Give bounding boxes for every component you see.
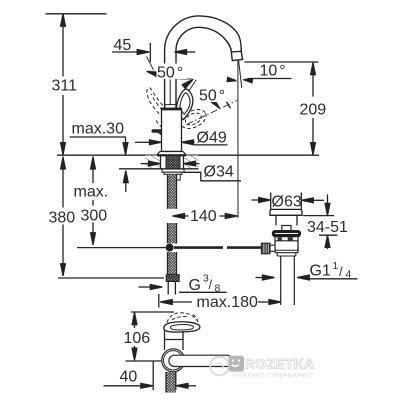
drain ring: [272, 231, 300, 237]
rod connector: [270, 245, 275, 251]
50deg no2 centerline dash-dot: [187, 101, 238, 125]
dim 311 tick top: [46, 13, 107, 15]
dim max.300 tick / rod thin line: [77, 247, 166, 249]
svg-text:/: /: [209, 277, 213, 292]
dim G1 1/4 underline: [306, 278, 358, 280]
50deg no1 ray right: [189, 80, 197, 92]
dim 45 line: [112, 51, 140, 53]
hose end tube: [167, 282, 169, 295]
side lever raised dashed: [167, 313, 197, 323]
drain tailpiece: [280, 256, 282, 305]
svg-text:ІНТЕРНЕТ-СУПЕРМАРКЕТ: ІНТЕРНЕТ-СУПЕРМАРКЕТ: [233, 374, 313, 380]
svg-text:/: /: [339, 264, 343, 279]
dim 209 tick top: [245, 61, 319, 63]
dim max.30 right stub: [125, 137, 127, 155]
flex hose upper: [168, 174, 177, 209]
lever tab left: [153, 129, 162, 133]
svg-text:G: G: [189, 277, 201, 294]
dim 380 line: [62, 157, 64, 208]
dim G1 1/4 arrows: [256, 277, 264, 279]
side spout tube: [169, 355, 232, 366]
side hose: [166, 372, 176, 393]
drain neck: [275, 215, 277, 225]
hose nut G3/8: [166, 275, 179, 282]
stream vertical ray: [237, 61, 239, 218]
nozzle: [231, 51, 242, 60]
svg-text:ROZETKA: ROZETKA: [245, 357, 314, 372]
counter bottom line: [119, 168, 199, 170]
svg-text:10°: 10°: [260, 63, 286, 80]
drain clamp: [274, 237, 276, 241]
svg-text:Ø63: Ø63: [272, 194, 302, 211]
svg-text:8: 8: [215, 283, 221, 295]
svg-text:4: 4: [346, 269, 352, 281]
dim 34-51 lower: [319, 234, 337, 236]
dim max.30 lower arrow at counter bottom: [123, 171, 128, 183]
svg-text:209: 209: [300, 102, 327, 119]
dim 10deg leader: [248, 78, 292, 80]
dim 40: [104, 385, 142, 387]
dim diam63 ticks: [270, 193, 272, 213]
50deg no2 arrowhead: [210, 98, 222, 110]
svg-text:Ø34: Ø34: [204, 164, 234, 181]
svg-text:50°: 50°: [157, 65, 183, 82]
drain boss: [282, 226, 291, 231]
washer: [164, 172, 182, 174]
dim G3/8 underline: [179, 291, 227, 293]
svg-text:max.30: max.30: [72, 121, 125, 138]
flex hose lower: [168, 252, 177, 275]
svg-text:max.: max.: [74, 184, 109, 201]
lever loop inner: [180, 93, 190, 114]
hole edge left: [160, 156, 162, 169]
dim 380 tick bottom: [58, 277, 164, 279]
hole edge right: [183, 156, 185, 169]
counter hatched band left: [145, 156, 161, 169]
cartridge collar: [165, 105, 176, 109]
side lever flat: [164, 322, 200, 332]
lever dashed ellipse up: [147, 88, 167, 118]
side tick left: [152, 361, 154, 390]
svg-text:G1: G1: [310, 263, 331, 280]
flex hose mid: [168, 223, 177, 244]
50deg no2 end tick: [227, 102, 231, 109]
drain cap: [270, 209, 302, 215]
pop-up rod guide: [176, 174, 180, 180]
side rings: [162, 349, 185, 372]
dim diam34: [141, 163, 150, 165]
stream 10deg slanted ray: [239, 61, 242, 88]
base escutcheon: [157, 152, 186, 155]
svg-text:1: 1: [333, 260, 339, 272]
lever loop outer: [176, 89, 193, 120]
dim 106 line: [134, 313, 136, 328]
svg-text:311: 311: [52, 78, 78, 95]
dim 140: [173, 214, 185, 219]
dim 45 inner arrow: [175, 50, 187, 55]
side view: dim 106 tick top: [131, 311, 174, 313]
counter hatched band right: [185, 156, 199, 169]
svg-text:Ø49: Ø49: [197, 130, 227, 147]
spout outer: [165, 16, 242, 109]
dim max.300 line: [92, 157, 94, 183]
50deg no1 arc: [147, 72, 192, 80]
counter top line: [57, 154, 319, 156]
dim 106 tick bottom: [126, 360, 162, 362]
dim 209 line: [312, 63, 314, 97]
svg-text:50°: 50°: [199, 88, 225, 105]
white underlays for labels crossing lines: [157, 64, 229, 144]
svg-text:106: 106: [124, 330, 151, 347]
lever dashed ellipse fwd: [178, 106, 209, 132]
dim diam49: [135, 141, 151, 143]
dim 34-51 upper: [327, 194, 329, 203]
dim max.30 underline: [70, 136, 127, 138]
svg-text:34-51: 34-51: [307, 219, 348, 236]
svg-text:40: 40: [120, 369, 138, 386]
side hose edge tick: [175, 372, 177, 390]
50deg no1 ray left: [147, 57, 154, 71]
riser middle line: [169, 80, 171, 105]
watermark rozetka: [210, 356, 314, 380]
side body: [164, 331, 166, 350]
dim max.180 tick left: [158, 294, 160, 308]
drain body: [274, 241, 276, 253]
spout inner: [176, 27, 231, 108]
dim G3/8 arrow: [139, 286, 151, 288]
faucet body: [162, 109, 182, 152]
svg-text:380: 380: [49, 210, 76, 227]
dim 311 line: [62, 14, 64, 77]
svg-text:140: 140: [190, 208, 217, 225]
pivot dot: [166, 244, 174, 252]
pop-up rod: [174, 246, 223, 249]
svg-text:45: 45: [114, 37, 132, 54]
drain shoulder: [276, 253, 278, 256]
dim 45 tick: [149, 43, 151, 62]
threaded shank: [166, 155, 180, 169]
rod knurled nut: [261, 243, 270, 254]
svg-text:max.180: max.180: [197, 294, 258, 311]
mounting nut: [162, 169, 184, 172]
svg-text:300: 300: [81, 208, 108, 225]
